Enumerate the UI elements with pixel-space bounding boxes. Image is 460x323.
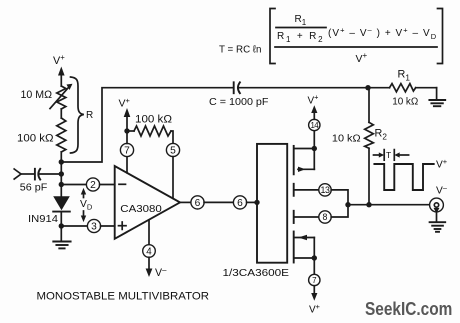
svg-text:SeekIC.com: SeekIC.com xyxy=(365,299,452,319)
pin 3 xyxy=(61,219,114,232)
svg-text:R2: R2 xyxy=(375,128,388,142)
pin 5 xyxy=(166,143,179,198)
pin 6 (op-amp output) xyxy=(180,196,204,209)
waveform square wave xyxy=(374,157,447,197)
transistor Q3 (to pin 8) xyxy=(294,211,319,223)
svg-text:R: R xyxy=(86,110,93,121)
svg-text:C = 1000 pF: C = 1000 pF xyxy=(209,97,269,108)
pin 14 xyxy=(309,119,320,148)
svg-text:V+: V+ xyxy=(309,302,320,316)
svg-text:VD: VD xyxy=(80,199,93,212)
right bracket xyxy=(438,9,443,64)
svg-text:T = RC ℓn: T = RC ℓn xyxy=(219,44,262,56)
svg-text:R1: R1 xyxy=(398,69,411,83)
transistor Q2 (to pin 13) xyxy=(294,184,319,196)
svg-text:4: 4 xyxy=(146,247,152,258)
CA3600E block xyxy=(223,144,290,279)
resistor R2 10 kohm xyxy=(332,88,387,205)
capacitor C = 1000 pF xyxy=(209,82,368,108)
resistor R1 10 kohm xyxy=(368,69,437,108)
power V+ (pin 7) xyxy=(309,286,320,316)
op-amp U1 CA3080 xyxy=(115,166,180,239)
brace R xyxy=(71,77,94,153)
svg-text:56 pF: 56 pF xyxy=(20,182,48,193)
svg-text:6: 6 xyxy=(195,198,201,209)
svg-text:6: 6 xyxy=(237,198,243,209)
svg-text:IN914: IN914 xyxy=(28,214,58,225)
svg-text:V–: V– xyxy=(436,183,448,197)
svg-text:14: 14 xyxy=(310,121,319,130)
pin 13 xyxy=(319,184,348,205)
diode D1 1N914 xyxy=(28,196,70,225)
capacitor 56 pF xyxy=(20,169,62,194)
pin 6 (CA3600E input) xyxy=(204,196,260,209)
left bracket xyxy=(270,9,275,64)
input terminal xyxy=(14,169,33,179)
ground (below diode) xyxy=(53,242,70,249)
pin 2 xyxy=(61,178,114,191)
wire: output bus to terminal xyxy=(348,204,430,206)
resistor 100 kohm (feedback to pin 5) xyxy=(127,113,173,143)
svg-text:8: 8 xyxy=(323,212,328,222)
svg-text:10 MΩ: 10 MΩ xyxy=(21,89,53,101)
svg-text:R1: R1 xyxy=(295,14,307,27)
node VD arrows xyxy=(80,188,93,222)
power V+ top left xyxy=(53,53,65,86)
svg-text:100 kΩ: 100 kΩ xyxy=(17,132,54,144)
svg-text:7: 7 xyxy=(124,146,130,157)
node: rail junction dots xyxy=(59,159,64,228)
svg-text:3: 3 xyxy=(91,222,97,233)
pin 7 (CA3600E) xyxy=(309,258,320,286)
svg-text:V–: V– xyxy=(155,265,167,279)
svg-text:13: 13 xyxy=(321,185,330,195)
power V+ (op-amp) xyxy=(119,96,131,131)
transistor Q4 (bottom NMOS pair) xyxy=(294,232,317,263)
output jack terminal xyxy=(430,198,444,222)
transistor Q1 (top PMOS pair) xyxy=(294,146,317,175)
svg-text:V+: V+ xyxy=(436,157,448,171)
svg-text:MONOSTABLE MULTIVIBRATOR: MONOSTABLE MULTIVIBRATOR xyxy=(37,290,210,302)
power V- (op-amp) xyxy=(146,257,167,279)
svg-text:7: 7 xyxy=(312,276,317,285)
ground (output jack) xyxy=(430,222,446,232)
svg-text:V+: V+ xyxy=(308,93,319,107)
pin 7 xyxy=(120,128,133,173)
ground (R1) xyxy=(429,88,445,107)
svg-text:V+: V+ xyxy=(53,53,65,67)
power V+ (pin 14) xyxy=(308,93,319,120)
svg-text:10 kΩ: 10 kΩ xyxy=(392,96,419,107)
resistor 100 kohm (left divider) xyxy=(17,118,66,162)
pin 8 xyxy=(319,202,351,223)
svg-text:1/3CA3600E: 1/3CA3600E xyxy=(223,268,290,279)
svg-text:V+: V+ xyxy=(356,51,368,65)
svg-text:R1 + R2: R1 + R2 xyxy=(277,31,324,44)
svg-text:100 kΩ: 100 kΩ xyxy=(135,113,172,125)
svg-text:V+: V+ xyxy=(119,96,131,110)
svg-text:10 kΩ: 10 kΩ xyxy=(332,133,361,144)
node: R1/R2/C junction xyxy=(365,85,370,90)
formula T = RC ln xyxy=(219,9,443,66)
wire: diode to ground xyxy=(60,212,62,241)
wire: feedback branch to C xyxy=(61,88,233,162)
svg-text:(V+ – V– ) + V+ – VD: (V+ – V– ) + V+ – VD xyxy=(328,26,437,42)
potentiometer 10 Mohm xyxy=(21,84,73,118)
main fraction bar xyxy=(275,46,437,48)
svg-text:2: 2 xyxy=(90,180,96,191)
wire: rail from divider to diode xyxy=(60,162,62,197)
pin 4 xyxy=(143,220,156,258)
svg-text:T: T xyxy=(386,150,391,160)
svg-text:5: 5 xyxy=(170,146,176,157)
waveform T marks xyxy=(374,150,409,161)
svg-text:CA3080: CA3080 xyxy=(120,204,162,215)
